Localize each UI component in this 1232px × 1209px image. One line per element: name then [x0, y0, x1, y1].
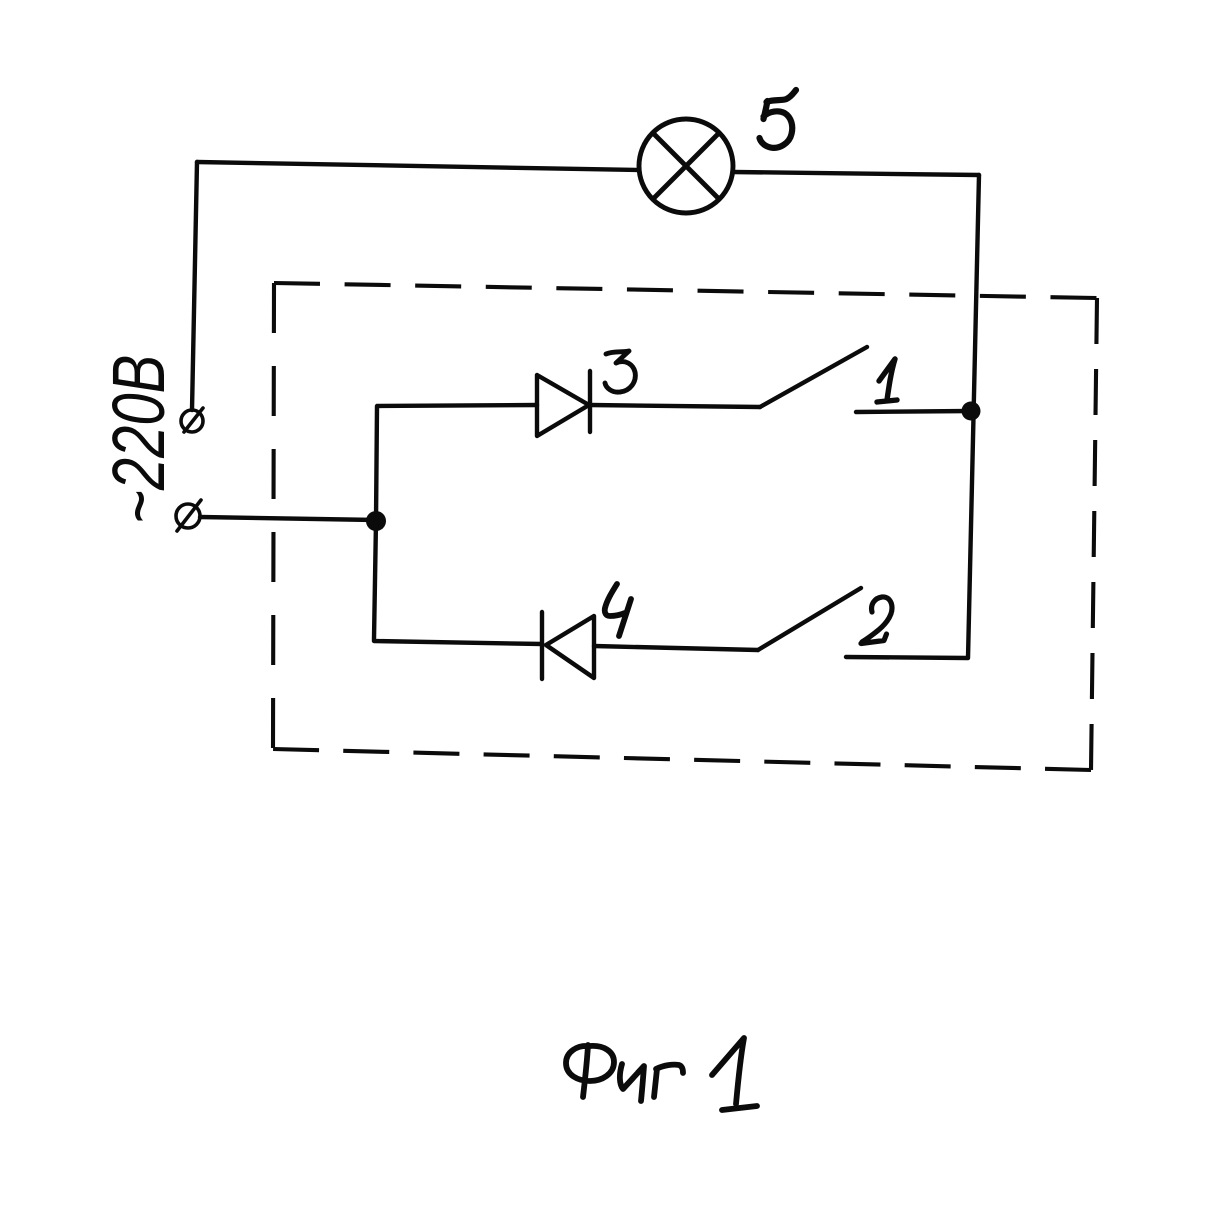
diode VD3: [537, 371, 590, 436]
node junction B: [962, 402, 981, 421]
caption Фиг 1: [566, 1038, 757, 1110]
label 4: [605, 584, 631, 636]
terminal X1 (upper, with slash): [181, 408, 203, 432]
dashed enclosure box: [273, 283, 1097, 770]
label 2: [861, 597, 892, 644]
wire junction down to lower branch: [374, 521, 542, 644]
wire left vertical: [192, 162, 197, 410]
label 5: [760, 90, 797, 148]
node junction A: [366, 511, 386, 531]
wire diode 4 to switch 2: [594, 646, 758, 650]
wire switch 1 fixed contact: [856, 411, 971, 412]
wire diode 3 to switch 1: [590, 405, 760, 407]
wire X2 to junction: [200, 517, 376, 520]
terminal X2 (lower, with slash): [176, 500, 201, 531]
label 1: [877, 359, 897, 402]
switch SA1 blade: [760, 347, 867, 407]
lamp HL 5: [639, 119, 733, 213]
wire top-right horizontal segment: [733, 172, 979, 175]
wire switch 2 fixed contact: [846, 657, 967, 658]
wire junction up to upper branch: [376, 405, 537, 521]
svg-text:~220В: ~220В: [98, 355, 180, 524]
wire right vertical: [968, 175, 979, 658]
label 3: [605, 351, 635, 392]
wire top-left horizontal segment: [197, 162, 638, 170]
switch SA2 blade: [758, 588, 861, 650]
diode VD4: [542, 612, 594, 679]
